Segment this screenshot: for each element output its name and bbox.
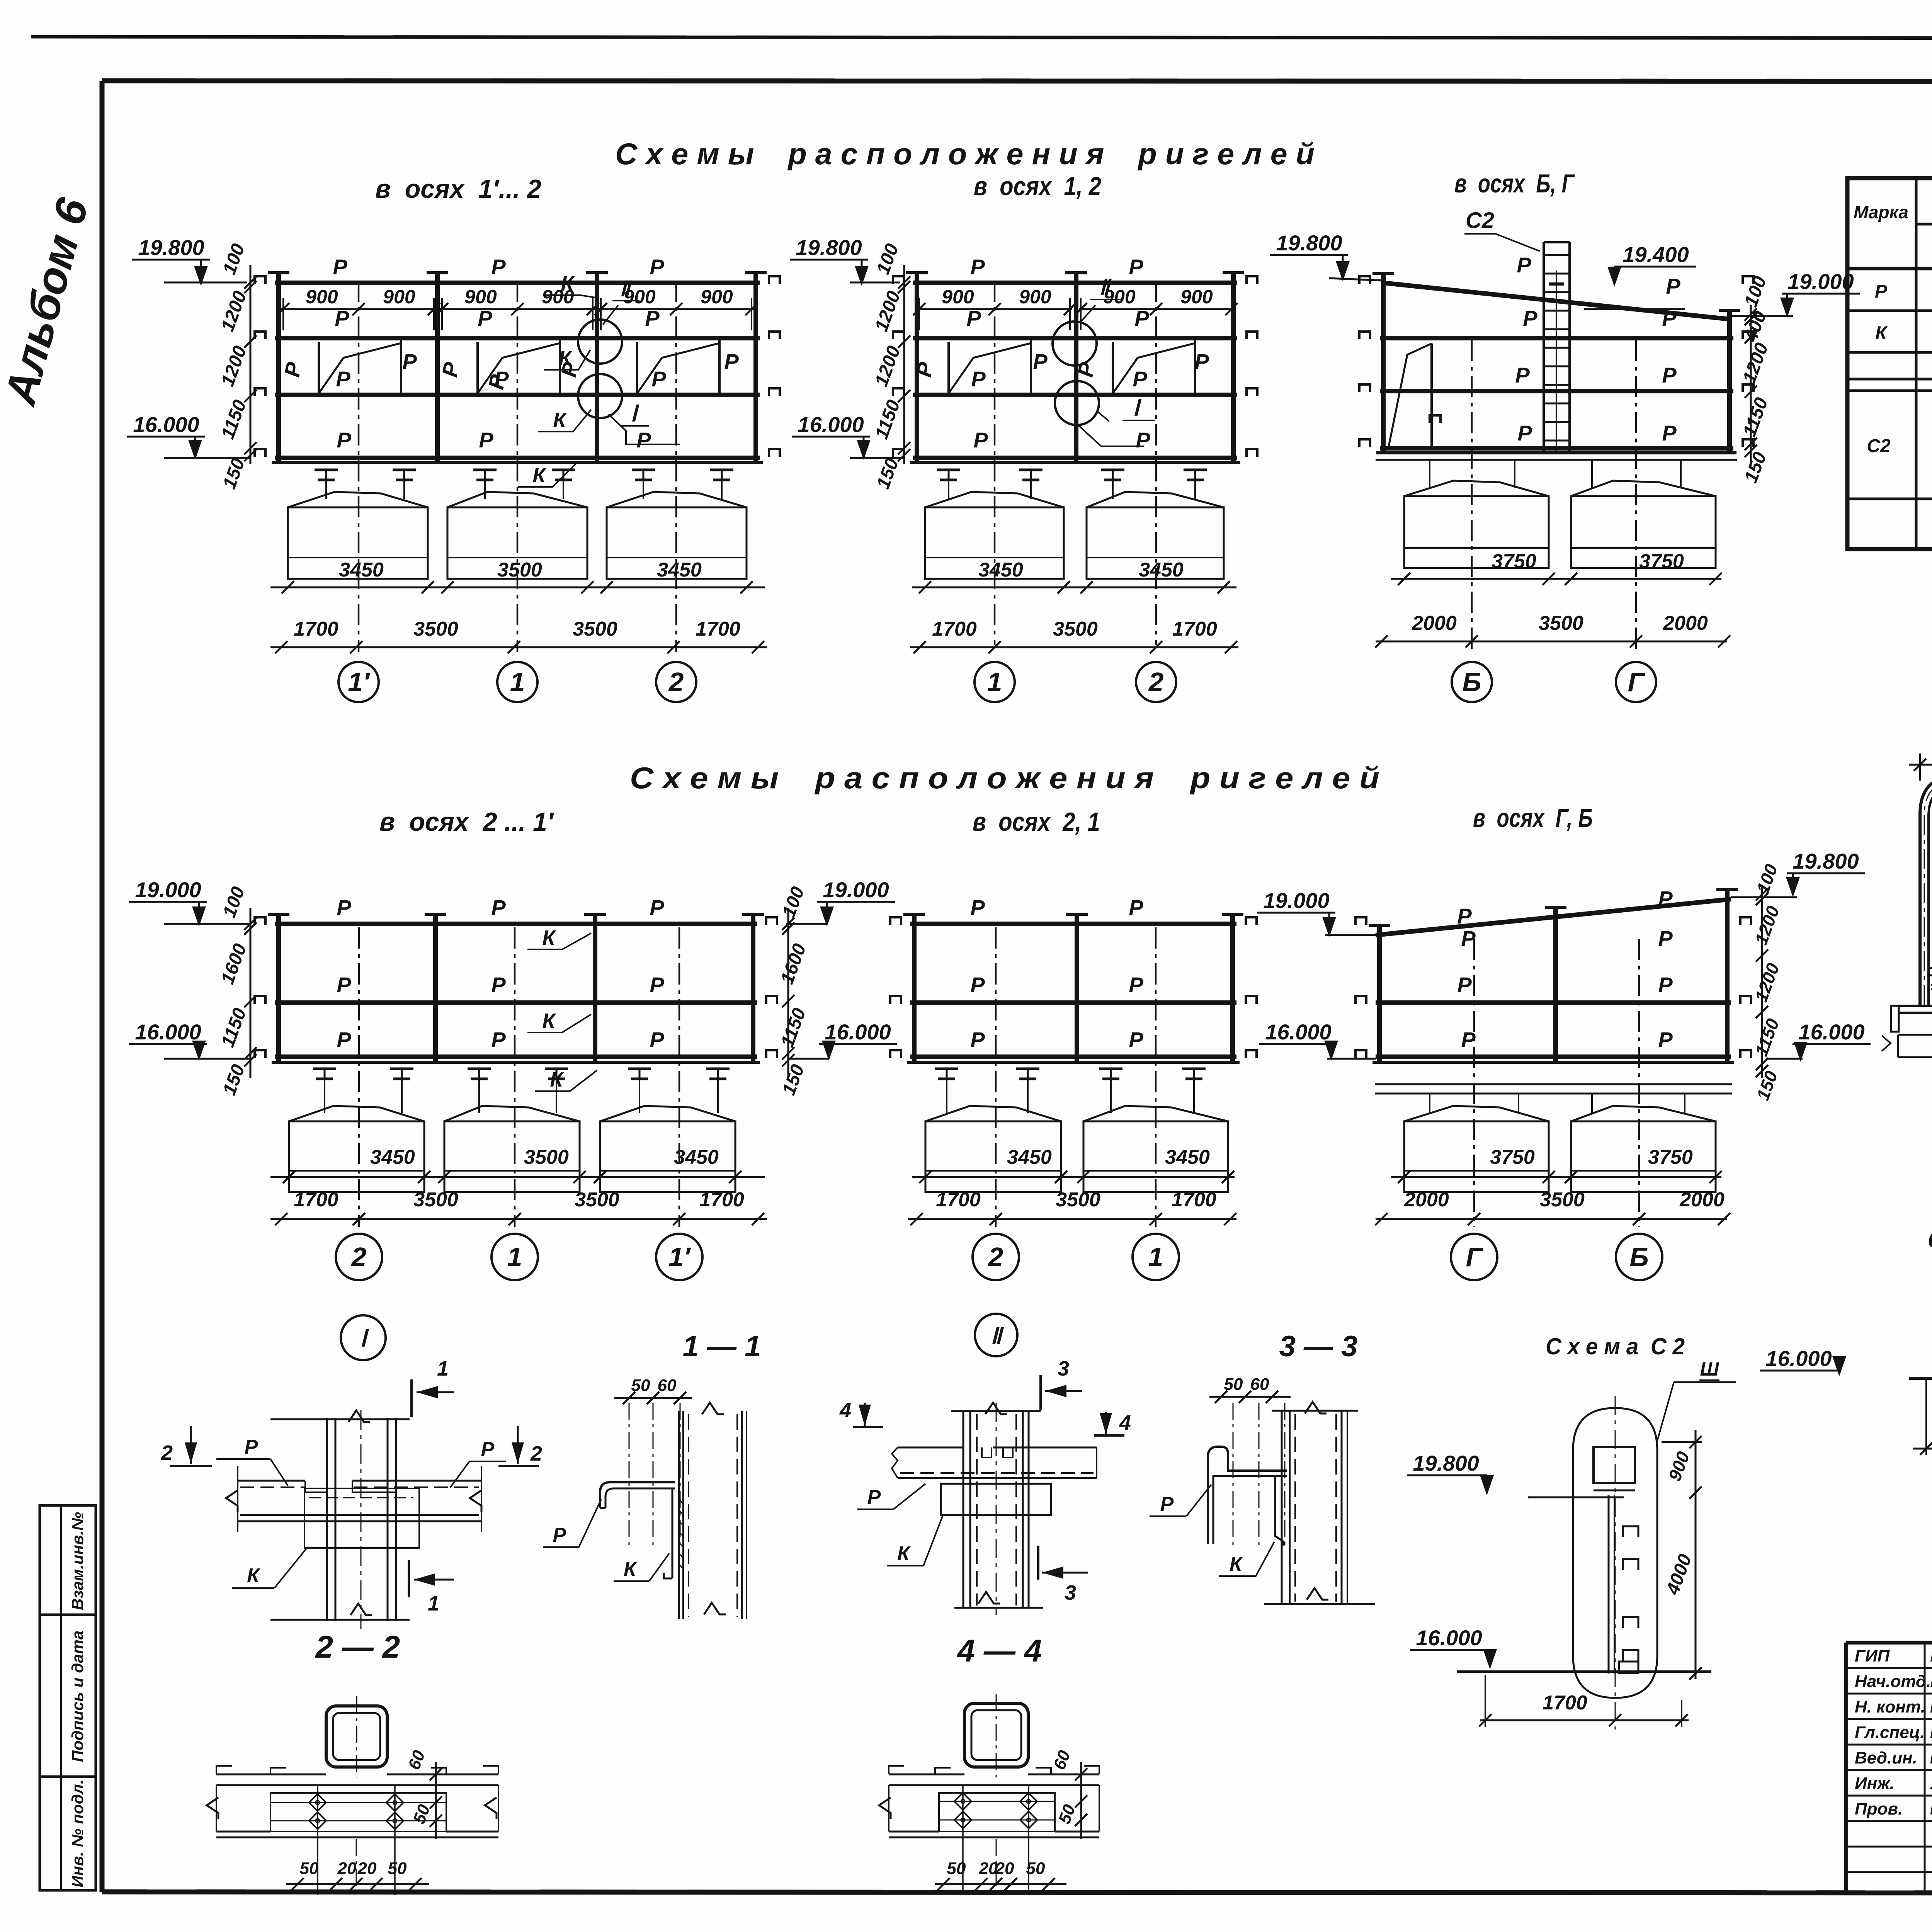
detail 1-1 dims 50 60 xyxy=(614,1376,692,1549)
schema C2 level 19.800 xyxy=(1407,1451,1624,1497)
svg-text:Б: Б xyxy=(1462,667,1481,697)
svg-text:в осях 1, 2: в осях 1, 2 xyxy=(974,172,1101,201)
schema C2 level 16.000 xyxy=(1410,1626,1711,1672)
svg-text:19.000: 19.000 xyxy=(135,878,201,902)
svg-text:3500: 3500 xyxy=(497,559,542,581)
detail II column xyxy=(951,1403,1043,1615)
svg-text:Р: Р xyxy=(973,428,988,452)
detail 3-3 dims 50 60 xyxy=(1209,1375,1291,1546)
svg-text:3750: 3750 xyxy=(1648,1146,1693,1168)
vedomost row K xyxy=(1875,321,1932,345)
schematic C right dim chain xyxy=(1739,274,1772,486)
schematic D K labels xyxy=(527,926,597,1091)
schematic B left level 19.800 xyxy=(790,235,900,286)
schematic B axis circles xyxy=(975,662,1176,702)
svg-text:50: 50 xyxy=(300,1859,319,1878)
svg-text:19.000: 19.000 xyxy=(1263,888,1329,913)
svg-text:1′: 1′ xyxy=(348,667,371,697)
svg-text:Р: Р xyxy=(553,1524,566,1546)
schematic B 900 dims xyxy=(913,286,1238,330)
schematic D axis circles xyxy=(336,1234,702,1280)
svg-text:16.000: 16.000 xyxy=(798,412,864,437)
svg-text:Р: Р xyxy=(336,367,350,391)
svg-text:16.000: 16.000 xyxy=(133,412,199,437)
svg-text:Р: Р xyxy=(1515,363,1530,387)
svg-text:Р: Р xyxy=(1461,1027,1476,1052)
svg-text:Р: Р xyxy=(1136,428,1150,452)
detail II section flags 3 xyxy=(1038,1357,1088,1604)
svg-text:900: 900 xyxy=(1019,286,1051,308)
svg-text:3450: 3450 xyxy=(657,559,702,581)
svg-text:3500: 3500 xyxy=(573,618,617,640)
detail I K label xyxy=(232,1548,307,1588)
svg-text:Р: Р xyxy=(867,1486,881,1509)
svg-text:Р: Р xyxy=(1523,306,1537,330)
svg-text:60: 60 xyxy=(1250,1375,1269,1394)
svg-text:Р: Р xyxy=(651,367,666,391)
svg-text:Р: Р xyxy=(337,895,351,920)
svg-text:2: 2 xyxy=(351,1242,367,1272)
detail 4-4 tube column xyxy=(964,1694,1028,1777)
elevation III hole row xyxy=(1929,959,1932,975)
title block role names xyxy=(1855,1646,1932,1818)
schematic D lower dim row xyxy=(270,1189,767,1225)
detail II labels xyxy=(857,1484,943,1566)
svg-text:20: 20 xyxy=(357,1859,377,1878)
svg-text:3450: 3450 xyxy=(674,1146,719,1168)
schematic D upper dim row xyxy=(270,1146,765,1183)
svg-text:Р: Р xyxy=(970,895,985,920)
schema C2 center axis xyxy=(1615,1396,1616,1730)
svg-text:19.000: 19.000 xyxy=(823,878,889,902)
schema C2 title xyxy=(1546,1333,1685,1359)
row1 subtitle axes 1'-2 xyxy=(375,174,541,204)
svg-text:1: 1 xyxy=(987,667,1002,697)
svg-text:С х е м ы р а с п о л о ж е: С х е м ы р а с п о л о ж е н и я р и г … xyxy=(630,761,1379,795)
svg-text:16.000: 16.000 xyxy=(1265,1020,1331,1044)
detail 2-2 gusset dashed and bolts xyxy=(270,1785,446,1895)
schematic row2 axes 2-1' frame xyxy=(255,913,777,1062)
svg-text:К: К xyxy=(532,464,547,487)
schematic B P labels xyxy=(912,255,1209,452)
schematic D right level 16.000 xyxy=(788,1020,897,1061)
svg-text:3: 3 xyxy=(1065,1581,1076,1604)
svg-text:2000: 2000 xyxy=(1679,1189,1725,1211)
svg-text:Р: Р xyxy=(970,255,985,279)
row1 subtitle axes 1,2 xyxy=(974,172,1101,201)
svg-text:Р: Р xyxy=(636,428,651,452)
svg-text:Р: Р xyxy=(478,306,492,330)
svg-text:3450: 3450 xyxy=(1007,1146,1052,1168)
svg-text:2000: 2000 xyxy=(1412,612,1457,634)
svg-text:Р: Р xyxy=(1662,421,1677,445)
detail 2-2 dims xyxy=(286,1748,442,1895)
schematic A 900 dims xyxy=(277,286,758,330)
svg-text:Р: Р xyxy=(650,255,664,279)
svg-text:Р: Р xyxy=(650,1027,664,1052)
svg-text:900: 900 xyxy=(942,286,974,308)
schematic C upper dim row xyxy=(1391,550,1722,585)
schematic A lower dim row 1700 3500 3500 1700 xyxy=(270,618,767,653)
svg-text:1700: 1700 xyxy=(294,618,338,640)
schematic row1 axes 1,2 frame xyxy=(893,272,1257,463)
svg-text:Р: Р xyxy=(724,349,739,374)
svg-text:Р: Р xyxy=(491,973,506,997)
elevation III platform members xyxy=(1882,985,1932,1057)
detail 3-3 bent plate xyxy=(1208,1447,1287,1544)
schematic D I-beam stubs xyxy=(313,1069,730,1113)
detail 2-2 tube column xyxy=(326,1696,387,1777)
schematic F left level 19.000 xyxy=(1257,888,1378,937)
schematic F left level 16.000 xyxy=(1259,1020,1376,1061)
schematic F P labels xyxy=(1457,886,1673,1052)
svg-text:Р: Р xyxy=(970,1027,985,1052)
svg-text:Г: Г xyxy=(1466,1242,1484,1272)
row1 main title xyxy=(615,137,1315,171)
svg-text:Р: Р xyxy=(1129,1027,1143,1052)
detail 4-4 title xyxy=(957,1633,1042,1668)
svg-text:в осях 2, 1: в осях 2, 1 xyxy=(973,807,1100,837)
svg-text:1700: 1700 xyxy=(1172,618,1217,640)
detail 1-1 title xyxy=(683,1330,761,1363)
detail I column xyxy=(270,1410,410,1629)
detail 1-1 column xyxy=(679,1403,747,1619)
svg-text:2: 2 xyxy=(161,1441,173,1464)
svg-text:Р: Р xyxy=(1134,306,1149,330)
svg-text:К: К xyxy=(624,1558,637,1580)
svg-text:Р: Р xyxy=(1517,421,1532,445)
row2 subtitle axes G,B xyxy=(1473,803,1593,833)
svg-text:1700: 1700 xyxy=(936,1189,981,1211)
svg-text:Пров.: Пров. xyxy=(1855,1799,1903,1818)
detail II section marks 4 xyxy=(839,1399,1131,1435)
svg-text:16.000: 16.000 xyxy=(135,1020,201,1044)
schematic E axis centerlines xyxy=(996,927,1156,1227)
elevation III section mark 6 left xyxy=(1928,1228,1932,1257)
schematic A upper dim row 3450 3500 3450 xyxy=(270,559,765,594)
schematic C level 19.400 xyxy=(1584,242,1696,309)
schematic C right level 19.000 xyxy=(1731,269,1860,318)
detail 3-3 column xyxy=(1264,1402,1375,1604)
svg-text:К: К xyxy=(542,926,556,949)
detail 1-1 bent plate P xyxy=(600,1482,675,1508)
schematic E P labels xyxy=(970,895,1143,1052)
schematic B left level 16.000 xyxy=(792,412,904,460)
svg-text:Ш: Ш xyxy=(1700,1358,1719,1380)
svg-text:3500: 3500 xyxy=(1540,1189,1585,1211)
svg-text:Р: Р xyxy=(245,1436,258,1458)
svg-text:2: 2 xyxy=(530,1442,542,1465)
detail II gusset xyxy=(941,1484,1051,1515)
schematic B braces xyxy=(949,339,1195,395)
schematic C lower dim row xyxy=(1375,612,1730,648)
svg-text:3 — 3: 3 — 3 xyxy=(1279,1330,1358,1363)
svg-text:3750: 3750 xyxy=(1492,550,1536,573)
schematic D silos xyxy=(289,1106,735,1192)
schematic B left dim chain xyxy=(871,241,910,492)
svg-text:900: 900 xyxy=(1180,286,1213,308)
svg-text:3: 3 xyxy=(1058,1357,1069,1380)
svg-text:К: К xyxy=(1875,323,1888,344)
svg-text:К: К xyxy=(558,347,573,370)
svg-text:Р: Р xyxy=(337,1027,351,1052)
svg-text:Р: Р xyxy=(1160,1493,1174,1515)
svg-text:2: 2 xyxy=(1148,667,1164,697)
svg-text:3500: 3500 xyxy=(413,618,458,640)
detail 2-2 plates xyxy=(207,1766,498,1837)
svg-text:К: К xyxy=(247,1565,260,1587)
svg-text:Р: Р xyxy=(1129,973,1143,997)
svg-text:900: 900 xyxy=(464,286,497,308)
detail I gusset dashed xyxy=(304,1488,419,1548)
schematic C silo props xyxy=(1376,460,1737,488)
svg-text:16.000: 16.000 xyxy=(825,1020,891,1044)
svg-text:50: 50 xyxy=(947,1859,966,1878)
svg-text:3750: 3750 xyxy=(1490,1146,1535,1168)
svg-text:3450: 3450 xyxy=(370,1146,415,1168)
schematic B detail circles xyxy=(1053,276,1155,446)
schematic D right level 19.000 xyxy=(786,878,895,927)
schema C2 stadium outline xyxy=(1573,1408,1657,1698)
svg-text:Р: Р xyxy=(1875,281,1888,302)
schematic B upper dim row xyxy=(912,559,1236,594)
elevation III ground line xyxy=(1909,1377,1932,1380)
svg-text:Подпись и дата: Подпись и дата xyxy=(68,1631,87,1762)
svg-text:3500: 3500 xyxy=(1056,1189,1100,1211)
schematic F right level 16.000 xyxy=(1768,1020,1871,1062)
svg-text:Р: Р xyxy=(491,255,506,279)
schematic F right dim chain xyxy=(1751,861,1783,1103)
svg-text:Вед.ин.: Вед.ин. xyxy=(1855,1748,1917,1767)
svg-text:19.800: 19.800 xyxy=(796,235,862,260)
schema C2 dim 1700 xyxy=(1479,1675,1689,1727)
left stamp column boxes xyxy=(40,1505,96,1890)
svg-text:20: 20 xyxy=(337,1859,357,1878)
svg-text:в осях Г, Б: в осях Г, Б xyxy=(1473,803,1593,833)
svg-text:1700: 1700 xyxy=(294,1189,338,1211)
elevation III bottom dims xyxy=(1913,1378,1932,1455)
schematic A left dim chain xyxy=(217,241,257,492)
svg-text:Р: Р xyxy=(1194,349,1209,374)
album label xyxy=(0,193,98,411)
schematic E upper dim row xyxy=(912,1146,1235,1183)
svg-text:Взам.инв.№: Взам.инв.№ xyxy=(68,1512,87,1610)
schematic C brace xyxy=(1388,344,1440,448)
svg-text:16.000: 16.000 xyxy=(1416,1626,1482,1650)
row2 subtitle axes 2-1' xyxy=(379,807,554,837)
svg-text:РЫБКИНА: РЫБКИНА xyxy=(1930,1672,1932,1691)
svg-text:50: 50 xyxy=(388,1859,407,1878)
row1 subtitle axes B,G xyxy=(1454,169,1575,198)
svg-text:Р: Р xyxy=(1457,973,1472,997)
schematic C C2 label xyxy=(1464,208,1540,251)
row2 subtitle axes 2,1 xyxy=(973,807,1100,837)
svg-text:Г: Г xyxy=(1628,667,1646,697)
svg-text:3500: 3500 xyxy=(413,1189,458,1211)
schematic row2 axes 2,1 frame xyxy=(890,913,1257,1062)
svg-text:900: 900 xyxy=(383,286,415,308)
svg-text:50: 50 xyxy=(631,1376,650,1395)
svg-text:К: К xyxy=(553,408,567,432)
svg-text:в осях 1′... 2: в осях 1′... 2 xyxy=(375,174,541,204)
svg-text:19.400: 19.400 xyxy=(1622,242,1689,267)
svg-text:Р: Р xyxy=(650,973,664,997)
svg-text:1700: 1700 xyxy=(932,618,977,640)
svg-text:1 — 1: 1 — 1 xyxy=(683,1330,761,1363)
svg-text:Р: Р xyxy=(491,1027,506,1052)
svg-text:Р: Р xyxy=(479,428,493,452)
svg-text:Б: Б xyxy=(1629,1242,1649,1272)
svg-text:Р: Р xyxy=(402,349,417,374)
svg-text:2000: 2000 xyxy=(1663,612,1708,634)
svg-text:Инж.: Инж. xyxy=(1855,1774,1895,1793)
schematic A I-beam stubs and silo props xyxy=(315,470,733,499)
svg-text:16.000: 16.000 xyxy=(1798,1020,1864,1044)
svg-text:50: 50 xyxy=(1224,1375,1243,1394)
schematic B silos xyxy=(925,492,1224,579)
svg-text:Р: Р xyxy=(1658,926,1673,951)
schematic D left dim chain xyxy=(217,884,257,1098)
svg-text:Р: Р xyxy=(970,973,985,997)
schematic D P labels xyxy=(337,895,664,1052)
svg-text:3450: 3450 xyxy=(978,559,1023,581)
schematic row1 axes 1'-2 frame xyxy=(255,272,780,463)
svg-text:Р: Р xyxy=(1658,1027,1673,1052)
schematic A axis circles xyxy=(338,662,696,702)
vedomost row C2 xyxy=(1867,398,1932,489)
svg-text:РАШЕВСКИЙ: РАШЕВСКИЙ xyxy=(1930,1722,1932,1742)
svg-text:6: 6 xyxy=(1928,1228,1932,1252)
schematic A silos xyxy=(288,492,747,579)
schematic row2 axes G,B frame xyxy=(1355,888,1751,1062)
svg-text:в осях Б, Г: в осях Б, Г xyxy=(1454,169,1575,198)
svg-text:Р: Р xyxy=(333,255,347,279)
schematic A braces xyxy=(319,339,719,395)
svg-text:900: 900 xyxy=(701,286,733,308)
elevation III top dim 800 xyxy=(1909,733,1932,781)
svg-text:ПАНКРАТОВА: ПАНКРАТОВА xyxy=(1930,1748,1932,1767)
schematic B I-beam stubs xyxy=(937,470,1207,499)
svg-text:1700: 1700 xyxy=(696,618,740,640)
vedomost header texts xyxy=(1854,192,1932,268)
svg-text:Инв. № подл.: Инв. № подл. xyxy=(68,1779,87,1887)
schematic F lower dim row xyxy=(1375,1189,1730,1225)
svg-text:2: 2 xyxy=(668,667,684,697)
schematic C axis circles xyxy=(1452,662,1656,702)
detail 1-1 labels xyxy=(543,1499,669,1581)
vedomost row P xyxy=(1875,270,1932,303)
schema C2 dim 900 xyxy=(1662,1430,1702,1499)
svg-text:4 — 4: 4 — 4 xyxy=(957,1633,1042,1668)
svg-text:1700: 1700 xyxy=(1543,1692,1587,1714)
detail I label circle xyxy=(341,1315,386,1360)
svg-text:Р: Р xyxy=(491,895,506,920)
detail I section flags 1 xyxy=(409,1357,454,1615)
detail 4-4 plates xyxy=(879,1766,1099,1837)
svg-text:Р: Р xyxy=(971,367,986,391)
schematic A P labels xyxy=(280,255,739,452)
svg-text:ПАНКРАТОВА: ПАНКРАТОВА xyxy=(1930,1799,1932,1818)
svg-text:50: 50 xyxy=(1026,1859,1045,1878)
svg-text:1: 1 xyxy=(507,1242,522,1272)
svg-text:Р: Р xyxy=(1457,904,1472,928)
detail 1-1 K angle on column xyxy=(664,1488,684,1578)
svg-text:Р: Р xyxy=(1662,306,1677,330)
svg-text:Р: Р xyxy=(1033,349,1048,374)
row2 main title xyxy=(630,761,1379,795)
svg-text:3750: 3750 xyxy=(1639,550,1684,573)
schematic C ladder C2 xyxy=(1544,242,1570,452)
schema C2 III mark xyxy=(1657,1358,1736,1442)
svg-text:Р: Р xyxy=(966,306,981,330)
svg-text:Р: Р xyxy=(1461,926,1476,951)
svg-text:Р: Р xyxy=(1129,895,1143,920)
schematic C P labels xyxy=(1515,253,1680,445)
schematic A left level 19.800 xyxy=(132,235,247,286)
svg-text:1: 1 xyxy=(510,667,525,697)
svg-text:Р: Р xyxy=(1129,255,1143,279)
detail 4-4 dims xyxy=(935,1748,1087,1895)
svg-text:Р: Р xyxy=(1662,363,1677,387)
schematic C axis centerlines xyxy=(1472,340,1636,653)
schematic E lower dim row xyxy=(908,1189,1236,1225)
schematic row1 axes B,G frame xyxy=(1359,272,1753,453)
detail I section marks 2 xyxy=(161,1426,542,1466)
svg-text:К: К xyxy=(542,1009,556,1032)
svg-text:Р: Р xyxy=(1133,367,1147,391)
svg-text:Р: Р xyxy=(335,306,349,330)
title block names grid xyxy=(1846,1643,1932,1893)
svg-text:Р: Р xyxy=(1658,886,1673,911)
schematic F axis circles xyxy=(1451,1234,1662,1280)
svg-text:Р: Р xyxy=(337,428,351,452)
svg-text:С х е м а С 2: С х е м а С 2 xyxy=(1546,1333,1685,1359)
detail 3-3 title xyxy=(1279,1330,1358,1363)
svg-text:К: К xyxy=(1230,1553,1243,1575)
svg-text:Р: Р xyxy=(1666,274,1680,298)
detail 3-3 labels xyxy=(1150,1485,1274,1576)
svg-text:3450: 3450 xyxy=(1139,559,1184,581)
schematic F right level 19.800 xyxy=(1731,849,1865,897)
detail I P labels xyxy=(216,1436,506,1488)
schema C2 ladder element xyxy=(1594,1447,1638,1673)
detail 2-2 title xyxy=(315,1629,400,1665)
svg-text:Р: Р xyxy=(1658,973,1673,997)
svg-text:19.800: 19.800 xyxy=(1793,849,1859,873)
detail 4-4 gusset dashed and bolts xyxy=(939,1785,1055,1895)
schematic B axis centerlines xyxy=(995,281,1156,645)
schematic D left level 16.000 xyxy=(129,1020,250,1061)
svg-text:Н. конт.: Н. конт. xyxy=(1855,1697,1925,1716)
detail II beam xyxy=(892,1447,1097,1478)
svg-text:К: К xyxy=(561,272,575,295)
svg-text:4: 4 xyxy=(839,1399,851,1422)
svg-text:19.000: 19.000 xyxy=(1787,269,1854,294)
svg-text:1: 1 xyxy=(428,1592,439,1615)
sheet outer top edge xyxy=(31,37,1932,39)
svg-text:Р: Р xyxy=(337,973,351,997)
svg-text:3500: 3500 xyxy=(1053,618,1098,640)
svg-text:16.000: 16.000 xyxy=(1765,1346,1832,1371)
elevation III level 16.000 xyxy=(1760,1346,1846,1376)
svg-text:Нач.отд.: Нач.отд. xyxy=(1855,1672,1931,1691)
schematic E axis circles xyxy=(973,1234,1179,1280)
svg-text:Р: Р xyxy=(650,895,664,920)
svg-text:К: К xyxy=(897,1543,911,1565)
detail II label circle xyxy=(975,1314,1017,1356)
schema C2 dim 4000 xyxy=(1662,1497,1702,1680)
svg-text:ИВАНОВА: ИВАНОВА xyxy=(1930,1646,1932,1665)
